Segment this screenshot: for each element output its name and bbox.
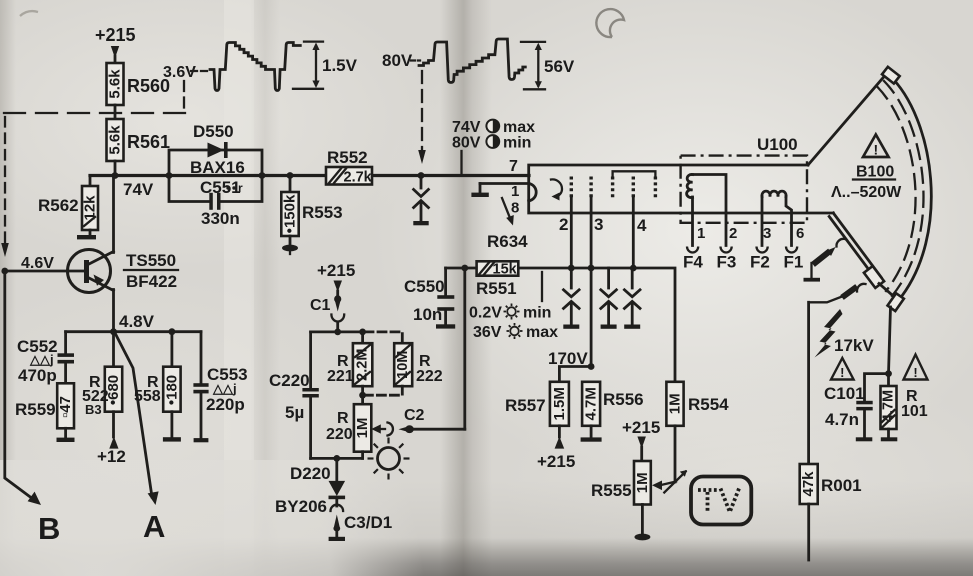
svg-text:△△j: △△j	[212, 381, 237, 396]
svg-text:•180: •180	[163, 375, 180, 405]
svg-text:80V: 80V	[382, 51, 413, 70]
svg-text:1: 1	[697, 225, 705, 242]
svg-text:R559: R559	[15, 400, 56, 419]
svg-text:A: A	[143, 509, 165, 544]
svg-text:1.5V: 1.5V	[322, 56, 358, 75]
svg-text:B: B	[38, 511, 60, 546]
svg-text:!: !	[840, 365, 844, 380]
svg-text:C550: C550	[404, 277, 445, 296]
svg-text:36V: 36V	[473, 324, 502, 341]
svg-text:△△j: △△j	[29, 352, 54, 367]
svg-text:5.6k: 5.6k	[107, 69, 124, 99]
svg-text:220p: 220p	[206, 395, 245, 414]
svg-text:1M: 1M	[667, 393, 684, 414]
svg-text:R634: R634	[487, 232, 528, 251]
svg-text:R551: R551	[476, 279, 517, 298]
svg-text:17kV: 17kV	[834, 336, 874, 355]
svg-text:10n: 10n	[413, 305, 442, 324]
svg-text:222: 222	[416, 368, 443, 385]
svg-text:5.6k: 5.6k	[107, 125, 124, 155]
svg-text:D220: D220	[290, 464, 331, 483]
svg-text:1M: 1M	[354, 418, 371, 439]
svg-text:470p: 470p	[18, 366, 57, 385]
svg-text:max: max	[503, 119, 535, 136]
svg-text:4: 4	[637, 216, 647, 235]
svg-text:101: 101	[901, 403, 928, 420]
svg-text:BAX16: BAX16	[190, 158, 245, 177]
svg-text:R557: R557	[505, 396, 546, 415]
svg-text:+215: +215	[95, 25, 136, 45]
svg-text:4.7M: 4.7M	[583, 387, 600, 420]
svg-text:1M: 1M	[634, 472, 651, 493]
svg-text:558: 558	[134, 388, 161, 405]
svg-text:R: R	[337, 410, 349, 427]
svg-text:56V: 56V	[544, 57, 575, 76]
svg-text:8: 8	[511, 200, 519, 217]
svg-text:C220: C220	[269, 371, 310, 390]
svg-text:+12: +12	[97, 447, 126, 466]
svg-text:4.7n: 4.7n	[825, 410, 859, 429]
svg-text:C2: C2	[404, 407, 425, 424]
svg-text:74V: 74V	[452, 119, 481, 136]
svg-text:BF422: BF422	[126, 272, 177, 291]
svg-text:C1: C1	[310, 297, 331, 314]
svg-text:5µ: 5µ	[285, 403, 304, 422]
svg-text:0.2V: 0.2V	[469, 305, 502, 322]
svg-text:4.6V: 4.6V	[21, 255, 54, 272]
svg-text:B100: B100	[856, 164, 894, 181]
svg-text:!: !	[913, 365, 917, 380]
svg-text:min: min	[523, 305, 551, 322]
svg-text:▫47: ▫47	[57, 396, 74, 418]
svg-text:B3: B3	[85, 402, 102, 417]
svg-text:r: r	[238, 181, 243, 195]
svg-text:2: 2	[729, 225, 737, 242]
svg-text:R553: R553	[302, 203, 343, 222]
svg-text:2.2M: 2.2M	[355, 349, 371, 381]
svg-text:R001: R001	[821, 476, 862, 495]
svg-text:2: 2	[559, 215, 568, 234]
svg-text:R552: R552	[327, 148, 368, 167]
svg-text:R562: R562	[38, 196, 79, 215]
svg-text:F1: F1	[784, 253, 804, 272]
svg-text:R556: R556	[603, 390, 644, 409]
svg-text:3: 3	[763, 225, 771, 242]
svg-text:U100: U100	[757, 135, 798, 154]
svg-text:!: !	[873, 142, 878, 158]
svg-text:•150k: •150k	[282, 194, 299, 233]
svg-text:1: 1	[511, 183, 519, 200]
svg-text:7: 7	[509, 158, 518, 175]
svg-text:max: max	[526, 324, 558, 341]
svg-text:C101: C101	[824, 384, 865, 403]
svg-text:330n: 330n	[201, 209, 240, 228]
svg-text:1.5M: 1.5M	[551, 387, 568, 420]
svg-text:2.7k: 2.7k	[344, 170, 373, 186]
svg-text:BY206: BY206	[275, 497, 327, 516]
svg-text:F3: F3	[717, 253, 737, 272]
svg-text:80V: 80V	[452, 135, 481, 152]
svg-text:10M: 10M	[395, 351, 411, 379]
svg-text:R561: R561	[127, 132, 170, 152]
svg-text:Λ..–520W: Λ..–520W	[831, 184, 902, 201]
svg-text:+215: +215	[537, 452, 575, 471]
svg-text:+215: +215	[317, 261, 355, 280]
svg-text:15k: 15k	[493, 262, 518, 278]
svg-text:+215: +215	[622, 418, 660, 437]
svg-text:D550: D550	[193, 122, 234, 141]
svg-text:3: 3	[594, 215, 603, 234]
svg-text:R555: R555	[591, 481, 632, 500]
svg-text:C3/D1: C3/D1	[344, 513, 392, 532]
svg-text:min: min	[503, 135, 531, 152]
svg-text:47k: 47k	[800, 471, 817, 497]
svg-text:F2: F2	[750, 253, 770, 272]
svg-text:74V: 74V	[123, 180, 154, 199]
svg-text:3.6V: 3.6V	[163, 64, 196, 81]
svg-text:221: 221	[327, 368, 354, 385]
svg-text:R554: R554	[688, 395, 729, 414]
svg-text:220: 220	[326, 426, 353, 443]
svg-text:6: 6	[796, 225, 804, 242]
svg-text:4.8V: 4.8V	[119, 312, 155, 331]
svg-text:F4: F4	[683, 253, 703, 272]
svg-text:TS550: TS550	[126, 251, 176, 270]
